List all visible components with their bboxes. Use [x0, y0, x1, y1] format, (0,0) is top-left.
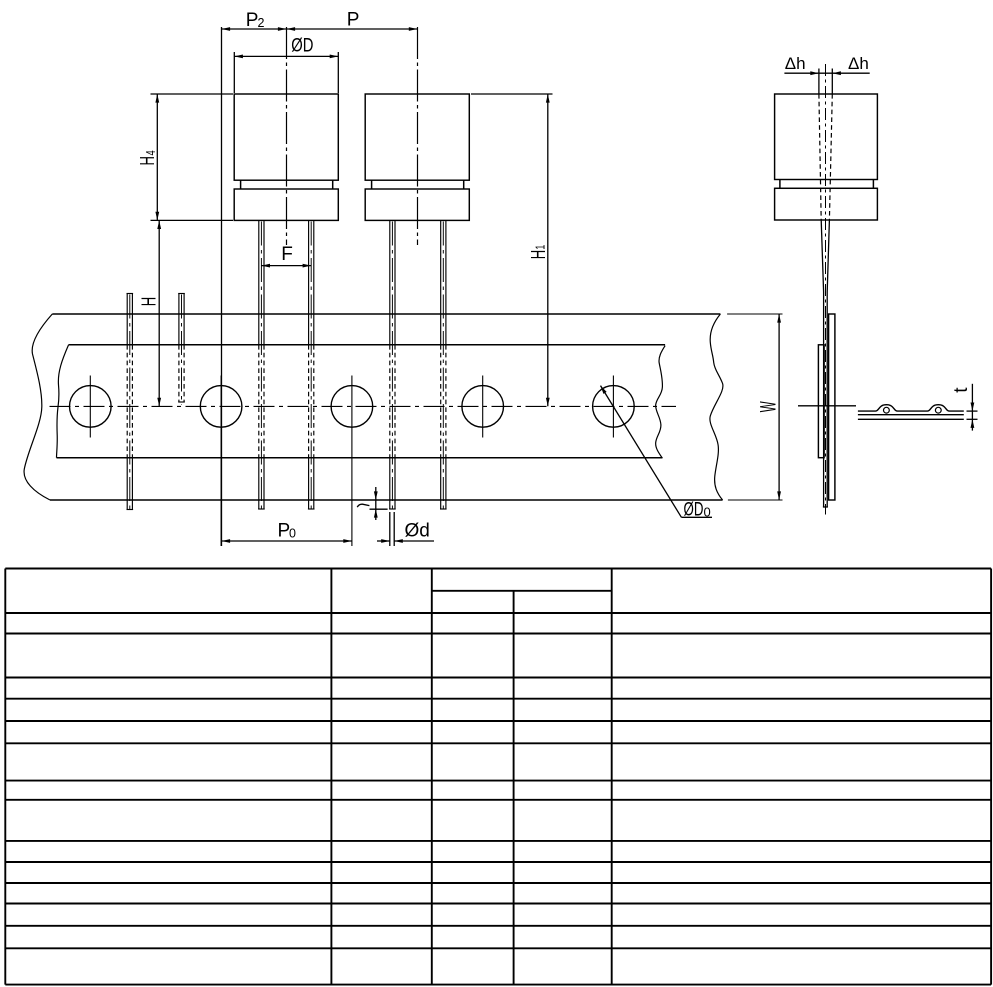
svg-text:F: F	[281, 244, 293, 265]
sprocket hole 1	[70, 376, 112, 438]
sprocket hole 2	[200, 376, 242, 547]
dimension OD0 leader	[599, 385, 712, 521]
dimension P0	[222, 520, 352, 543]
side view adhesive tape edge	[818, 345, 824, 458]
tape left break line inner	[57, 345, 69, 458]
sprocket hole 3	[331, 376, 373, 547]
tape cross-section bottom line	[858, 418, 964, 420]
side view leads hidden in body	[819, 94, 821, 220]
tape top edge	[52, 313, 720, 315]
dimension F	[261, 244, 311, 268]
capacitor C1 body	[234, 94, 338, 220]
svg-text:0: 0	[704, 505, 711, 520]
svg-text:1: 1	[534, 245, 548, 250]
specification table	[5, 569, 991, 985]
side view leads below body	[821, 220, 823, 292]
capacitor C2 left lead	[389, 221, 396, 512]
svg-text:ØD: ØD	[684, 499, 704, 520]
sprocket hole 5	[593, 376, 635, 438]
side view carrier tape edge	[829, 314, 835, 500]
dimension P	[347, 10, 360, 31]
tape right break line outer	[710, 314, 723, 500]
capacitor C1 right lead	[308, 221, 315, 512]
svg-text:Δh: Δh	[785, 54, 806, 73]
svg-text:t: t	[951, 387, 972, 393]
dimension W	[755, 314, 781, 500]
dimension delta-h	[784, 54, 869, 75]
capacitor C2 body	[365, 94, 469, 220]
side view leads above body	[818, 69, 820, 95]
capacitor C2 centerline	[417, 27, 419, 245]
tape cross-section top surface with lead bumps	[858, 405, 964, 411]
dimension P2	[222, 10, 418, 546]
tape right break line inner	[656, 346, 665, 459]
dimension Od	[377, 512, 434, 546]
dimension H1	[471, 94, 553, 406]
capacitor C1 centerline	[286, 27, 288, 245]
capacitor C2 right lead	[440, 221, 447, 512]
capacitor C1 left lead	[258, 221, 265, 512]
svg-text:H: H	[527, 250, 550, 259]
svg-text:H: H	[138, 297, 161, 306]
svg-text:Ød: Ød	[405, 520, 430, 541]
tape centerline	[50, 405, 677, 407]
svg-text:H: H	[136, 156, 159, 165]
tape left break line outer	[24, 314, 52, 500]
side view tape centerline	[798, 405, 856, 407]
tape bottom edge	[50, 499, 723, 501]
tape cross-section middle line	[858, 414, 964, 416]
svg-text:ØD: ØD	[291, 35, 313, 56]
cut lead stub A	[127, 294, 134, 513]
side view capacitor body	[775, 94, 878, 220]
cut lead stub B	[178, 294, 185, 405]
svg-text:4: 4	[145, 150, 159, 155]
svg-text:P: P	[347, 10, 360, 31]
svg-text:0: 0	[289, 526, 296, 540]
svg-text:Δh: Δh	[848, 54, 869, 73]
dimension OD	[234, 35, 338, 93]
svg-text:2: 2	[258, 16, 265, 30]
dimension t	[951, 384, 978, 431]
side view lead centerline	[825, 64, 827, 515]
dimension H	[138, 220, 162, 406]
dimension H4	[136, 94, 233, 220]
sprocket hole 4	[462, 376, 504, 438]
svg-text:W: W	[755, 401, 780, 412]
tape adhesive bottom line	[57, 457, 663, 459]
tape adhesive top line	[69, 344, 666, 346]
lead wire cross-section circles	[884, 407, 890, 413]
dimension lead protrusion	[357, 487, 387, 520]
